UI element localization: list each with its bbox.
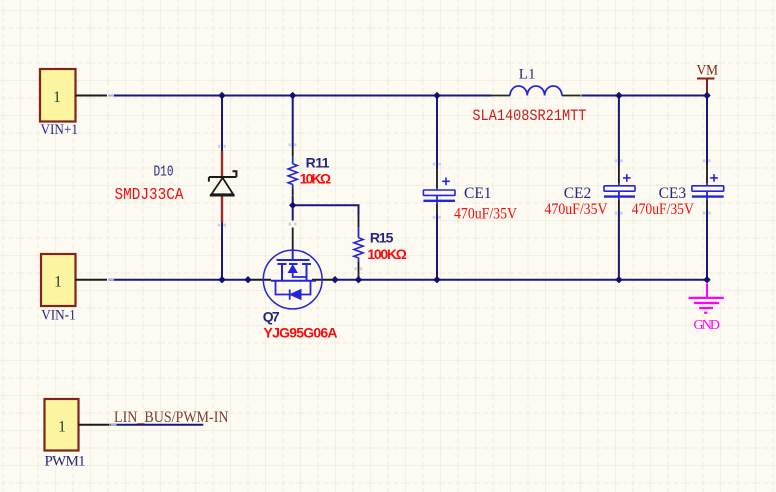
node: top CE2 junction [615, 92, 622, 99]
ground GND [689, 284, 724, 334]
node: top CE1 junction [433, 92, 440, 99]
wire: CE3 vertical [706, 96, 708, 281]
svg-text:R11: R11 [306, 155, 330, 171]
svg-text:1: 1 [54, 273, 62, 290]
connector VIN+1 [40, 69, 107, 138]
svg-text:10KΩ: 10KΩ [300, 170, 332, 186]
wire: CE2 vertical [618, 96, 620, 281]
connector PWM1 [45, 399, 110, 470]
wire: gate junction horizontal to R15 [293, 205, 359, 215]
node: top diode junction [218, 92, 225, 99]
svg-text:VM: VM [697, 63, 719, 79]
wire: gate vertical below junction [292, 205, 294, 220]
wire: R15 bottom to bus [358, 275, 360, 280]
svg-text:GND: GND [694, 318, 721, 333]
wire top: inductor to VM corner [578, 95, 708, 97]
node: bus diode junction [218, 276, 225, 283]
wire bus: VIN-1 to mosfet [108, 279, 248, 281]
wire: R11 bottom to gate junction [292, 196, 294, 205]
resistor R11 [288, 148, 331, 196]
node: top R11 junction [289, 92, 296, 99]
svg-text:R15: R15 [370, 230, 394, 246]
node: bus mosfet left junction [244, 276, 251, 283]
inductor L1 [472, 67, 586, 126]
capacitor CE2 [545, 165, 636, 218]
node: bus R15 junction [355, 276, 362, 283]
svg-text:CE3: CE3 [659, 185, 687, 202]
transistor Q7 (P-MOSFET) [248, 228, 338, 341]
svg-text:1: 1 [58, 418, 66, 435]
wire end marks [218, 143, 711, 270]
node: gate junction [289, 202, 296, 209]
wire: CE1 vertical [436, 96, 438, 281]
node: top VM corner junction [703, 92, 710, 99]
svg-text:VIN-1: VIN-1 [41, 308, 75, 324]
node: bus CE1 junction [433, 276, 440, 283]
connector VIN-1 [41, 254, 107, 324]
svg-text:470uF/35V: 470uF/35V [545, 201, 609, 218]
svg-text:470uF/35V: 470uF/35V [454, 206, 518, 223]
svg-text:470uF/35V: 470uF/35V [632, 201, 695, 218]
svg-text:L1: L1 [519, 67, 536, 83]
svg-text:VIN+1: VIN+1 [41, 122, 79, 138]
wire bus: mosfet to GND corner [335, 279, 707, 281]
svg-text:CE2: CE2 [564, 185, 592, 202]
node: bus GND corner junction [703, 276, 710, 283]
node: bus mosfet right junction [331, 276, 338, 283]
wire: diode branch vertical [221, 96, 223, 281]
svg-text:1: 1 [53, 89, 61, 106]
capacitor CE3 [632, 165, 724, 218]
wire: net LIN_BUS/PWM-IN stub [110, 424, 203, 426]
svg-text:CE1: CE1 [464, 185, 492, 202]
resistor R15 [354, 215, 407, 275]
capacitor CE1 [423, 169, 517, 223]
svg-text:LIN_BUS/PWM-IN: LIN_BUS/PWM-IN [114, 409, 229, 426]
wire top: VIN+1 to inductor [108, 95, 492, 97]
svg-text:YJG95G06A: YJG95G06A [264, 325, 338, 341]
svg-text:Q7: Q7 [263, 309, 280, 325]
node: bus CE2 junction [615, 276, 622, 283]
power port VM [697, 63, 719, 96]
diode D10 [115, 151, 237, 223]
svg-text:100KΩ: 100KΩ [367, 246, 407, 262]
svg-text:D10: D10 [154, 164, 174, 180]
svg-text:SMDJ33CA: SMDJ33CA [115, 185, 184, 204]
svg-text:SLA1408SR21MTT: SLA1408SR21MTT [472, 107, 586, 125]
wire: R11 branch vertical top [292, 96, 294, 149]
svg-text:PWM1: PWM1 [45, 454, 86, 470]
